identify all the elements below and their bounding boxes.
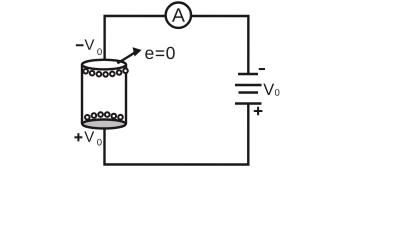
svg-text:V: V (263, 81, 274, 99)
svg-text:V: V (84, 37, 94, 54)
svg-text:A: A (172, 5, 185, 27)
svg-text:0: 0 (275, 88, 280, 99)
svg-text:0: 0 (97, 137, 102, 148)
svg-text:V: V (84, 129, 94, 146)
svg-text:e=0: e=0 (145, 43, 177, 63)
svg-text:0: 0 (97, 47, 102, 58)
